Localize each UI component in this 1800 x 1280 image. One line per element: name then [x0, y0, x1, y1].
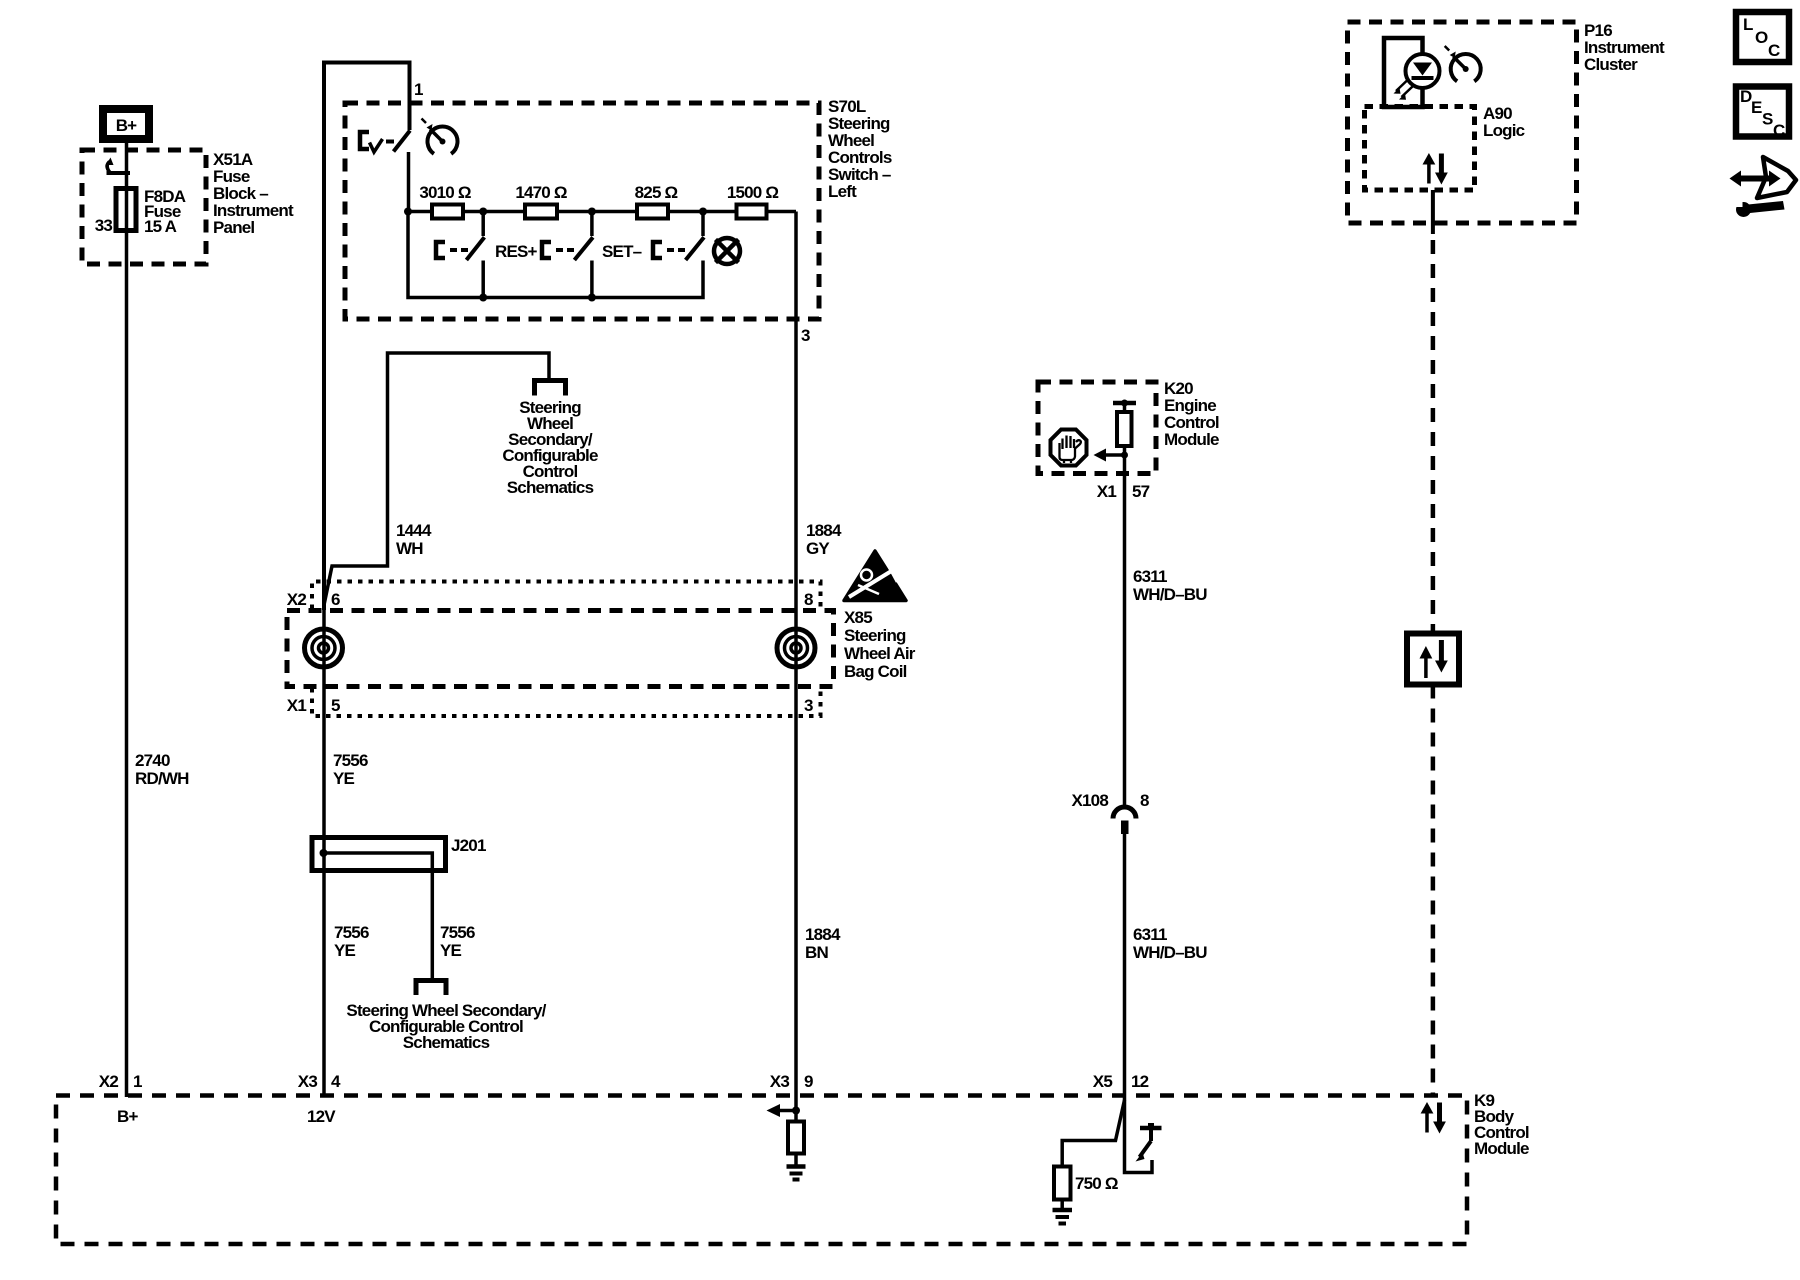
coil right (clockspring): [777, 629, 815, 667]
connector strip X2 (airbag coil top): [312, 582, 821, 610]
svg-text:825 Ω: 825 Ω: [635, 183, 678, 202]
internal rail and pull-up resistor (K20): [1113, 403, 1136, 474]
switch contact (K9): [1136, 1123, 1162, 1162]
pin X3 4 labels (K9): [298, 1072, 341, 1091]
svg-text:Module: Module: [1164, 430, 1219, 449]
svg-text:WH/D–BU: WH/D–BU: [1133, 943, 1207, 962]
label 7556 YE (lower right): [440, 923, 475, 960]
junction dot row node 4: [699, 208, 707, 216]
pin X5 12 labels (K9): [1093, 1072, 1149, 1091]
icon diagnostic arrow with wrench: [1730, 157, 1797, 217]
label X85 Steering Wheel Air Bag Coil: [844, 608, 916, 681]
icon stop hand octagon: [1051, 430, 1087, 466]
component box S70L: [345, 103, 819, 319]
off-page bracket (J201 branch): [416, 981, 446, 996]
label F8DA Fuse 15 A: [144, 187, 186, 236]
icon DESC: [1736, 87, 1789, 141]
wire 750 to ground: [1060, 1200, 1064, 1211]
off-page bracket (steering wheel secondary): [535, 381, 566, 396]
label 6311 WH/D-BU upper: [1133, 567, 1207, 604]
svg-text:Panel: Panel: [213, 218, 254, 237]
svg-text:X3: X3: [770, 1072, 790, 1091]
wire 1444 WH branch to off-page: [324, 353, 549, 605]
svg-text:S: S: [1762, 110, 1773, 129]
label 1884 BN: [805, 925, 841, 962]
svg-text:6311: 6311: [1133, 925, 1167, 944]
resistor 750 ohm: [1054, 1167, 1071, 1200]
svg-text:12: 12: [1131, 1072, 1149, 1091]
pin X2 1 labels (K9): [99, 1072, 142, 1091]
svg-text:9: 9: [804, 1072, 813, 1091]
label 1884 GY: [806, 521, 842, 558]
wire 1884 BN (X85 pin 3 down to K9 X3-9): [794, 648, 798, 1097]
component box X85: [287, 611, 834, 687]
wire 6311 WH/D-BU lower (X108 to K9 X5-12): [1123, 834, 1127, 1097]
wire resistor to ground: [794, 1154, 798, 1167]
junction dot row node 3: [588, 208, 596, 216]
svg-text:O: O: [1755, 28, 1768, 47]
svg-text:33: 33: [95, 216, 113, 235]
svg-text:Bag Coil: Bag Coil: [844, 662, 907, 681]
junction dot bus node 3: [588, 294, 596, 302]
svg-text:SET–: SET–: [602, 242, 642, 261]
svg-text:L: L: [1743, 15, 1753, 34]
svg-text:1884: 1884: [806, 521, 842, 540]
wire resistor row and switch bus: [408, 212, 796, 298]
label P16 Instrument Cluster: [1584, 21, 1665, 74]
junction dot row node 1: [404, 208, 412, 216]
note text steering wheel secondary schematics: [502, 398, 598, 497]
component box P16: [1348, 22, 1577, 223]
svg-text:C: C: [1773, 121, 1785, 140]
svg-text:12V: 12V: [307, 1107, 336, 1126]
resistor 1470 ohm: [525, 205, 557, 219]
junction dot K20 arrow: [1121, 452, 1128, 459]
svg-text:X2: X2: [287, 590, 307, 609]
svg-text:1444: 1444: [396, 521, 432, 540]
label A90 Logic: [1483, 104, 1525, 140]
svg-text:WH: WH: [396, 539, 423, 558]
svg-text:4: 4: [331, 1072, 341, 1091]
svg-text:Cluster: Cluster: [1584, 55, 1638, 74]
svg-text:3: 3: [804, 696, 813, 715]
svg-text:2740: 2740: [135, 751, 170, 770]
connector strip X1 (airbag coil bottom): [312, 688, 821, 716]
label 6311 WH/D-BU lower: [1133, 925, 1207, 962]
svg-text:B+: B+: [116, 116, 137, 135]
label 7556 YE (upper): [333, 751, 368, 788]
svg-text:7556: 7556: [334, 923, 369, 942]
svg-text:YE: YE: [440, 941, 462, 960]
switch SET- contact: [542, 237, 593, 260]
wire S70L pin 1 feed (top jog): [324, 63, 410, 611]
resistor 1500 ohm: [737, 205, 767, 219]
label K20 Engine Control Module: [1164, 379, 1219, 449]
signal arrow (K9 X3-9): [767, 1104, 797, 1117]
svg-text:RD/WH: RD/WH: [135, 769, 189, 788]
label 2740 RD/WH: [135, 751, 189, 788]
label S70L Steering Wheel Controls Switch - Left: [828, 97, 892, 201]
junction dot row node 2: [479, 208, 487, 216]
svg-text:57: 57: [1132, 482, 1150, 501]
svg-text:1500 Ω: 1500 Ω: [727, 183, 779, 202]
svg-text:X85: X85: [844, 608, 872, 627]
junction dot K20 rail: [1121, 400, 1128, 407]
icon serial data arrows (K9): [1421, 1102, 1446, 1134]
svg-text:Schematics: Schematics: [507, 478, 594, 497]
battery positive symbol B+: [103, 109, 149, 139]
svg-text:8: 8: [1140, 791, 1149, 810]
svg-text:6: 6: [331, 590, 340, 609]
svg-text:Schematics: Schematics: [403, 1033, 490, 1052]
svg-text:1884: 1884: [805, 925, 841, 944]
svg-text:X3: X3: [298, 1072, 318, 1091]
svg-text:1: 1: [414, 80, 423, 99]
wire 1884 GY (S70L pin 3 down to X85 pin 8): [794, 212, 798, 649]
svg-text:X1: X1: [287, 696, 307, 715]
fuse clip tick: [106, 158, 130, 174]
svg-text:BN: BN: [805, 943, 828, 962]
note text steering wheel secondary schematics (lower): [346, 1001, 546, 1052]
wire X3-9 interior (K9): [794, 1097, 798, 1122]
wire X5-12 interior (K9): [1125, 1097, 1153, 1173]
coil left (clockspring): [305, 629, 343, 667]
svg-text:7556: 7556: [333, 751, 368, 770]
svg-text:Module: Module: [1474, 1139, 1529, 1158]
switch S70L master contact with E actuator: [360, 131, 410, 212]
component box K20: [1038, 382, 1156, 474]
icon LOC: [1736, 12, 1789, 62]
icon LED indicator (P16): [1384, 38, 1440, 107]
wire serial data link (A90 to K9, dashed): [1431, 190, 1435, 1095]
svg-text:Left: Left: [828, 182, 857, 201]
label 7556 YE (lower left): [334, 923, 369, 960]
resistor internal (K9 X3-9): [788, 1122, 804, 1154]
svg-text:X5: X5: [1093, 1072, 1113, 1091]
svg-text:750 Ω: 750 Ω: [1075, 1174, 1118, 1193]
wire 2740 RD/WH (B+ feed down to K9 X2-1): [125, 143, 129, 1097]
svg-text:J201: J201: [451, 836, 486, 855]
wire branch to 750 ohm: [1062, 1100, 1124, 1167]
svg-text:Wheel Air: Wheel Air: [844, 644, 916, 663]
svg-text:Logic: Logic: [1483, 121, 1525, 140]
lamp icon (circle-X): [714, 238, 740, 264]
label K9 Body Control Module: [1474, 1091, 1529, 1158]
svg-text:1: 1: [133, 1072, 142, 1091]
icon airbag warning triangle: [844, 551, 906, 601]
svg-text:WH/D–BU: WH/D–BU: [1133, 585, 1207, 604]
svg-text:7556: 7556: [440, 923, 475, 942]
junction dot bus node 2: [479, 294, 487, 302]
signal arrow (K20): [1094, 449, 1125, 462]
svg-text:E: E: [1751, 98, 1762, 117]
resistor 3010 ohm: [432, 205, 463, 219]
svg-text:C: C: [1768, 41, 1780, 60]
switch RES+ contact: [436, 237, 484, 260]
module box K9 body control: [56, 1096, 1467, 1245]
icon cruise control gauge (P16): [1445, 46, 1481, 81]
junction dot J201: [320, 849, 328, 857]
junction dot X3-9: [792, 1107, 800, 1115]
svg-text:6311: 6311: [1133, 567, 1167, 586]
icon cruise control gauge (S70L): [422, 119, 458, 154]
logic box A90: [1365, 107, 1475, 191]
svg-text:3: 3: [801, 326, 810, 345]
connector box X51A fuse block: [82, 150, 206, 264]
svg-text:8: 8: [804, 590, 813, 609]
ground symbol (K9 X3-9): [787, 1167, 806, 1180]
wire 7556 YE (X85 pin 6 to pin 5 through coil and down): [322, 610, 326, 1097]
svg-text:Steering: Steering: [844, 626, 906, 645]
label 1444 WH: [396, 521, 432, 558]
svg-text:X1: X1: [1097, 482, 1117, 501]
icon serial data arrows (A90): [1423, 153, 1448, 185]
svg-text:5: 5: [331, 696, 340, 715]
pin X1 57 labels (K20): [1097, 482, 1150, 501]
pin X3 9 labels (K9): [770, 1072, 813, 1091]
splice J201: [312, 838, 446, 871]
wire 7556 YE branch to off-page: [324, 853, 433, 980]
svg-text:1470 Ω: 1470 Ω: [515, 183, 567, 202]
resistor 825 ohm: [637, 205, 668, 219]
svg-text:15 A: 15 A: [144, 217, 177, 236]
wire 6311 WH/D-BU upper (K20 to X108): [1123, 474, 1127, 807]
fuse F8DA body: [116, 189, 136, 231]
inline connector X108 pin 8: [1113, 807, 1136, 834]
ground symbol (750 ohm): [1053, 1210, 1073, 1224]
svg-text:3010 Ω: 3010 Ω: [419, 183, 471, 202]
icon serial data box (mid link): [1407, 634, 1459, 685]
svg-text:X2: X2: [99, 1072, 119, 1091]
svg-text:YE: YE: [333, 769, 355, 788]
label X51A Fuse Block - Instrument Panel: [213, 150, 294, 237]
svg-text:B+: B+: [117, 1107, 138, 1126]
svg-text:X108: X108: [1071, 791, 1108, 810]
switch 3 contact: [653, 237, 704, 260]
svg-text:GY: GY: [806, 539, 830, 558]
svg-text:YE: YE: [334, 941, 356, 960]
svg-text:RES+: RES+: [495, 242, 538, 261]
